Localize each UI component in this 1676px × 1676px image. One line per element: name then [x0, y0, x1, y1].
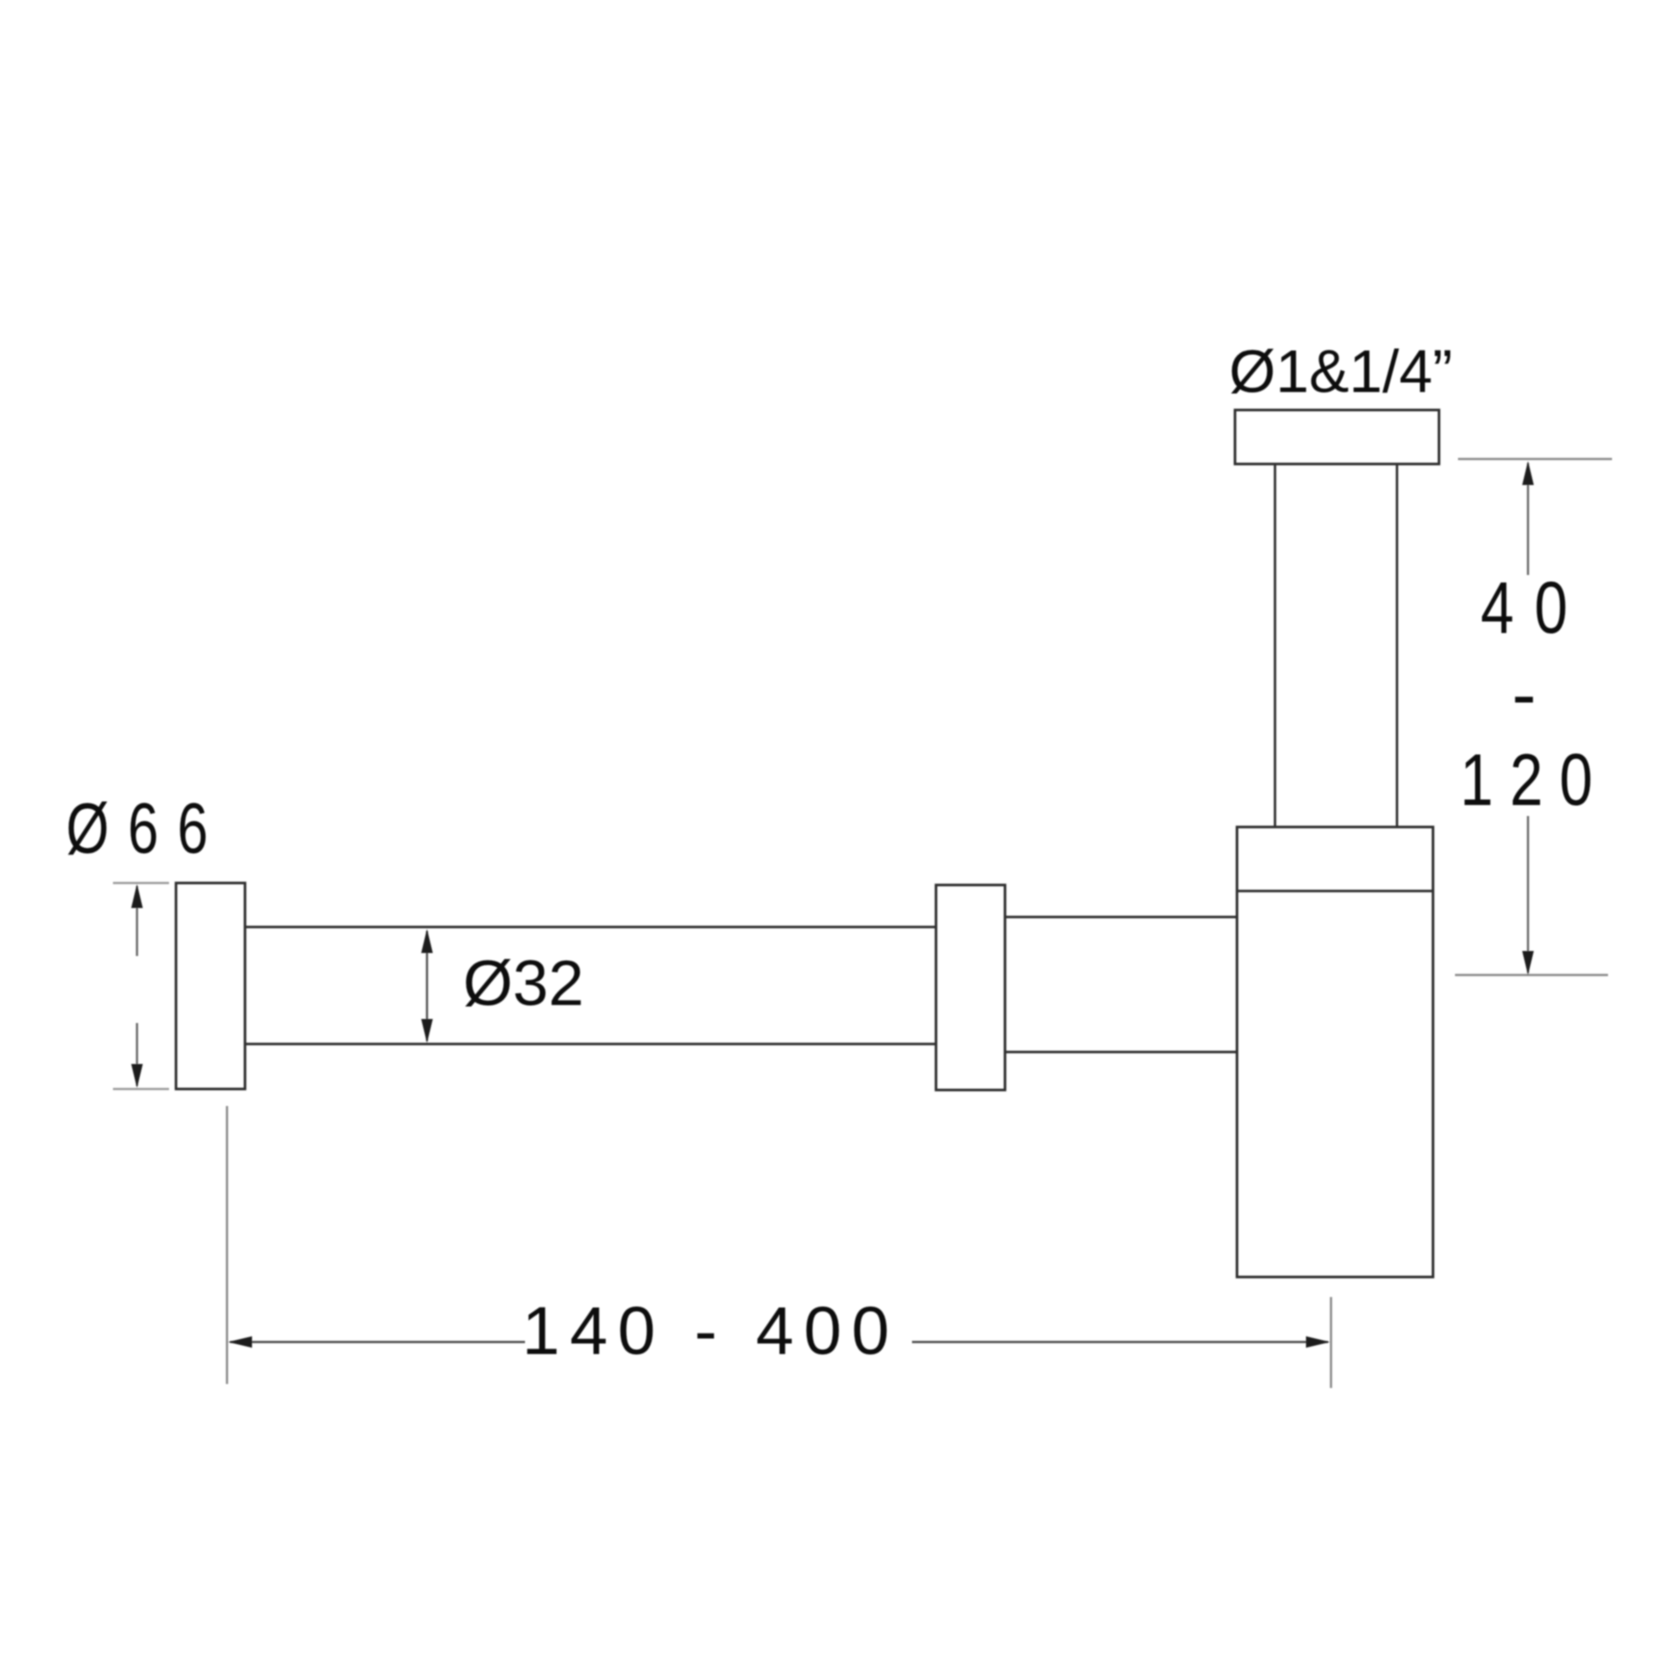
inlet tailpiece pipe [1275, 464, 1397, 827]
trap body top cap divider [1237, 890, 1433, 892]
dimension 140-400 right arrow segment [912, 1336, 1330, 1348]
dimension 140-400 left arrow segment [228, 1336, 525, 1348]
dimension 40-120 top reference line [1458, 458, 1612, 460]
trap body [1237, 827, 1433, 1277]
dimension Ø66 top tick [113, 882, 169, 884]
svg-text:Ø66: Ø66 [66, 789, 227, 868]
horizontal outlet pipe (wall side) [245, 927, 936, 1044]
dimension Ø66 upper arrow [131, 884, 143, 956]
svg-text:140 - 400: 140 - 400 [522, 1293, 899, 1369]
dimension 40-120 bottom reference line [1455, 974, 1608, 976]
dimension 40-120 lower arrow [1522, 816, 1534, 975]
svg-text:Ø1&1/4”: Ø1&1/4” [1229, 338, 1452, 405]
svg-text:40: 40 [1481, 568, 1589, 649]
wall flange [176, 883, 245, 1089]
horizontal outlet pipe (trap side, larger sleeve) [1005, 917, 1237, 1052]
dimension Ø32 double arrow [421, 929, 433, 1043]
svg-text:120: 120 [1460, 740, 1609, 821]
dimension 140-400 left extension line [226, 1106, 228, 1384]
compression nut [936, 885, 1005, 1090]
svg-text:Ø32: Ø32 [463, 947, 584, 1019]
dimension Ø66 bottom tick [113, 1088, 169, 1090]
dimension Ø66 lower arrow [131, 1023, 143, 1088]
dimension 140-400 right extension line [1330, 1297, 1332, 1388]
dimension 40-120 upper arrow [1522, 461, 1534, 575]
top inlet flange [1235, 410, 1439, 464]
svg-text:-: - [1512, 654, 1536, 735]
